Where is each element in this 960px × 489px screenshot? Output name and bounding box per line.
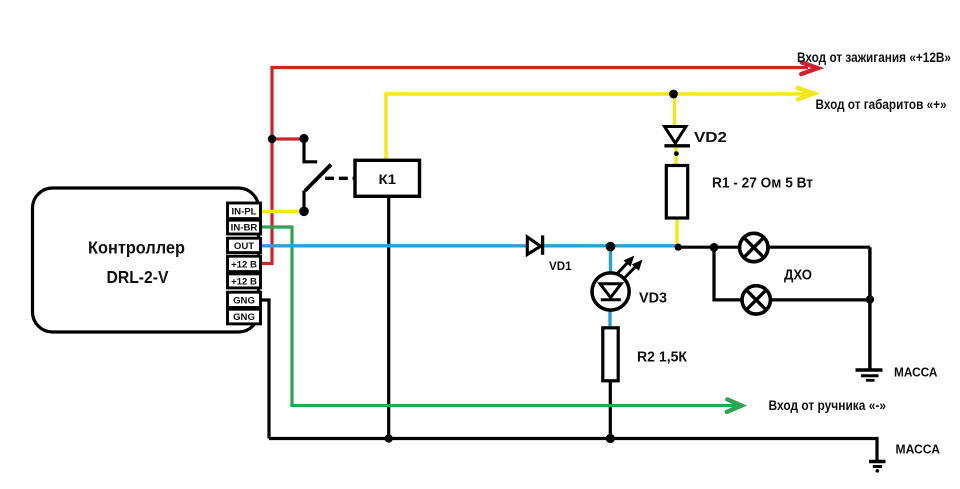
ground: bottom right (МАССА) bbox=[869, 462, 886, 473]
wire blue: VD1 cathode to DRL node bbox=[542, 244, 679, 247]
wire dashed: switch actuator link to relay K1 bbox=[325, 177, 356, 180]
wire blue: LED VD3 to R2 top bbox=[608, 309, 611, 329]
svg-text:Вход от ручника «-»: Вход от ручника «-» bbox=[769, 398, 887, 413]
svg-text:IN-PL: IN-PL bbox=[231, 206, 256, 217]
svg-text:ДХО: ДХО bbox=[784, 267, 812, 284]
wire black: K1 coil lead down to ground bus bbox=[387, 196, 390, 439]
wire red: +12V ignition from +12 B pin up and across to the right bbox=[261, 68, 808, 264]
label Контроллер bbox=[88, 237, 185, 257]
svg-text:VD1: VD1 bbox=[549, 259, 572, 273]
wire yellow: IN-PL pin to switch bottom contact bbox=[261, 210, 304, 213]
svg-text:VD3: VD3 bbox=[639, 290, 667, 307]
label VD3 bbox=[639, 290, 667, 307]
LED VD3 emission arrows bbox=[617, 256, 643, 278]
svg-text:МАССА: МАССА bbox=[896, 441, 941, 456]
switch S1 fixed contact (top) bbox=[304, 139, 317, 162]
pin OUT bbox=[228, 238, 261, 252]
lamp 2 (DRL) bbox=[742, 286, 770, 314]
wire black: R2 bottom to ground bus bbox=[609, 378, 612, 439]
resistor R2 bbox=[603, 328, 618, 381]
svg-text:К1: К1 bbox=[379, 171, 397, 187]
svg-text:OUT: OUT bbox=[234, 241, 254, 252]
pin GNG (lower) bbox=[228, 309, 261, 324]
node: small dot between VD2 and R1 bbox=[674, 151, 679, 156]
svg-text:GNG: GNG bbox=[233, 295, 255, 306]
svg-text:+12 В: +12 В bbox=[231, 276, 257, 287]
LED VD3 bbox=[592, 273, 629, 310]
label: handbrake input text bbox=[769, 398, 887, 413]
svg-text:R1 - 27 Ом 5 Вт: R1 - 27 Ом 5 Вт bbox=[712, 176, 813, 192]
pin IN-BR bbox=[228, 220, 261, 234]
svg-text:МАССА: МАССА bbox=[894, 364, 938, 379]
switch S1 blade bbox=[305, 165, 331, 191]
wire red: stub from red vertical to switch top contact bbox=[272, 137, 304, 140]
pin +12 B (lower) bbox=[228, 274, 261, 288]
arrowhead red: ignition input bbox=[801, 62, 818, 74]
node: red junction at switch branch bbox=[268, 135, 276, 143]
wire yellow: branch from gabarit line down to VD2 bbox=[673, 94, 676, 127]
node: ground bus junction at R2 lead bbox=[606, 434, 615, 443]
switch S1 bottom lead bbox=[302, 191, 305, 212]
label DRL-2-V bbox=[107, 267, 169, 287]
relay K1 bbox=[355, 160, 420, 196]
diode VD1 bbox=[527, 235, 542, 254]
node: right rail junction at lamp 2 bbox=[866, 295, 874, 303]
wire black: branch down to lamp 2 bbox=[714, 247, 742, 300]
label: gabarit input text bbox=[816, 97, 947, 112]
wire black: GNG pin to ground bus bbox=[261, 300, 269, 439]
label МАССА (lamps) bbox=[894, 364, 938, 379]
arrowhead green: handbrake input bbox=[727, 399, 742, 412]
node: yellow-blue-black junction bbox=[675, 244, 682, 251]
resistor R1 bbox=[666, 166, 687, 219]
node: switch bottom contact / IN-PL wire end bbox=[299, 207, 309, 217]
svg-text:Вход от зажигания «+12В»: Вход от зажигания «+12В» bbox=[797, 50, 951, 65]
wire yellow: R1 bottom down to DRL node bbox=[675, 218, 678, 247]
node: junction yellow on gabarit line bbox=[669, 90, 678, 99]
wire black: DRL node to lamp 1 bbox=[678, 246, 740, 249]
svg-text:IN-BR: IN-BR bbox=[231, 223, 258, 234]
lamp 1 (DRL) bbox=[740, 233, 768, 261]
svg-text:GNG: GNG bbox=[233, 312, 255, 323]
node: lamp branch junction bbox=[710, 243, 719, 252]
svg-text:Контроллер: Контроллер bbox=[88, 237, 185, 257]
label R2 value bbox=[637, 349, 688, 366]
label VD2 bbox=[694, 129, 727, 146]
wire green: IN-BR pin right and down bbox=[261, 227, 292, 407]
wire blue: OUT pin to diode VD1 bbox=[261, 244, 527, 247]
svg-text:+12 В: +12 В bbox=[231, 259, 257, 270]
pin IN-PL bbox=[228, 203, 261, 219]
diode VD2 bbox=[664, 127, 690, 146]
wire black: right rail down to lamp ground bbox=[868, 247, 871, 368]
ground: lamps (МАССА) bbox=[856, 370, 883, 380]
label VD1 bbox=[549, 259, 572, 273]
svg-text:DRL-2-V: DRL-2-V bbox=[107, 267, 169, 287]
wire black: lamp 1 to right rail bbox=[768, 246, 870, 249]
arrowhead yellow: gabarit input bbox=[798, 88, 814, 100]
controller box bbox=[33, 188, 259, 332]
node: switch top contact bbox=[299, 134, 308, 143]
wire black: lamp 2 to right rail bbox=[772, 298, 870, 301]
svg-text:VD2: VD2 bbox=[694, 129, 727, 146]
wire black: ground bus along the bottom to right ground bbox=[269, 439, 877, 461]
svg-text:Вход от габаритов «+»: Вход от габаритов «+» bbox=[816, 97, 947, 112]
wire green: handbrake line across to arrow bbox=[290, 404, 736, 407]
wire yellow: VD2 cathode to R1 top bbox=[674, 146, 677, 166]
pin +12 B (upper) bbox=[228, 256, 261, 271]
pin GNG (upper) bbox=[228, 292, 261, 307]
svg-text:R2 1,5К: R2 1,5К bbox=[637, 349, 688, 366]
label МАССА (bottom) bbox=[896, 441, 941, 456]
wire yellow: K1 top up and across to the right (gabarit input) bbox=[386, 94, 806, 161]
wire blue: node down to LED VD3 bbox=[609, 246, 612, 275]
label: ignition input text bbox=[797, 50, 951, 65]
label R1 value bbox=[712, 176, 813, 192]
label ДХО bbox=[784, 267, 812, 284]
node: ground bus junction at K1 lead bbox=[385, 434, 393, 442]
node: DRL blue junction bbox=[606, 242, 616, 252]
